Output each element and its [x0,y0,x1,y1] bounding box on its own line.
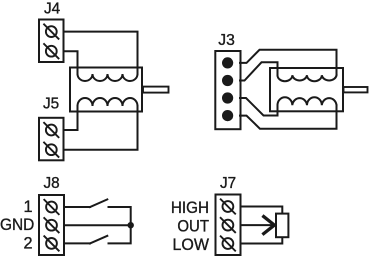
svg-text:J3: J3 [218,32,235,49]
connector J7 screw 3 [221,236,235,250]
connector J8 screw 1 [44,200,58,214]
transformer T2 body [270,68,343,111]
connector J3 pin 3 [222,92,233,103]
svg-text:2: 2 [23,235,32,253]
switch S1 contact and wire to junction [109,207,131,225]
svg-text:1: 1 [23,198,32,216]
connector J3 pin 4 [222,110,233,121]
connector J3 pin 1 [222,57,233,68]
svg-text:J5: J5 [43,95,59,112]
wire J8 pin1 to switch S1 [64,206,90,208]
connector J5 screw 2 [44,143,58,157]
wire J8 GND to junction [64,224,131,226]
switch S2 contact and wire to junction [109,225,131,243]
connector J3 body [215,51,240,129]
connector J5 body [39,118,64,161]
transformer T1 body [70,68,142,112]
connector J3 pin 2 [222,75,233,86]
svg-text:GND: GND [0,216,34,234]
transformer T2 tuning slug tab [344,87,368,92]
svg-text:J8: J8 [44,175,60,192]
wire J5 pin2 to T1 bottom winding right end [64,106,138,150]
connector J4 body [39,20,64,63]
potentiometer wiper arrow head [264,217,275,234]
transformer T2 primary winding (top) [278,75,337,81]
connector J8 body [39,195,64,255]
wire J5 pin1 to T1 bottom winding left end [64,106,78,130]
svg-text:OUT: OUT [177,218,209,236]
connector J4 screw 1 [44,24,58,38]
connector J7 screw 1 [221,199,235,213]
svg-text:HIGH: HIGH [171,199,209,217]
transformer T1 primary winding (top) [78,74,138,81]
svg-text:J7: J7 [220,175,236,192]
potentiometer body [276,214,288,238]
wire J4 pin1 to T1 top winding right end [64,32,138,74]
switch S1 arm [90,199,107,207]
wire J7 LOW to potentiometer bottom [241,238,283,244]
connector J7 screw 2 [221,218,235,232]
transformer T1 tuning slug tab [143,87,169,93]
transformer T1 secondary winding (bottom) [78,98,138,106]
connector J8 screw 2 [44,218,58,232]
wire J3 pin3 to T2 bottom winding left end [240,98,278,116]
svg-text:LOW: LOW [173,236,210,254]
transformer T2 secondary winding (bottom) [278,97,337,105]
wire J8 pin2 to switch S2 [64,242,90,244]
wire J7 OUT wiper shaft [241,224,272,226]
svg-text:J4: J4 [44,0,61,17]
connector J8 screw 3 [44,236,58,250]
wire J3 pin4 to T2 bottom winding right end [240,105,337,129]
wire J7 HIGH to potentiometer top [241,207,283,214]
connector J4 screw 2 [44,44,58,58]
connector J5 screw 1 [44,123,58,137]
wire J4 pin2 to T1 top winding left end [64,51,78,74]
wire J3 pin1 to T2 top winding right end [240,50,337,75]
connector J7 body [216,195,241,256]
wire J3 pin2 to T2 top winding left end [240,62,278,80]
switch S2 arm [90,236,107,244]
junction dot [128,222,134,228]
